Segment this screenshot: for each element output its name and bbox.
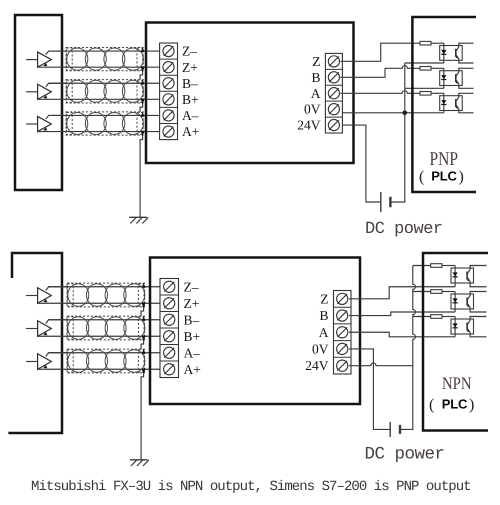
resistor R2 (top) [420, 67, 431, 71]
shielded twisted-pair cable A (top) [66, 112, 145, 136]
wire pair A (top) [38, 115, 163, 131]
svg-text:24V: 24V [305, 358, 329, 373]
resistor R1 (bottom) [431, 264, 442, 268]
svg-text:(: ( [429, 397, 434, 414]
wire pair B (bottom) [38, 320, 163, 337]
svg-text:A–: A– [182, 108, 199, 123]
label DC power (top) [365, 220, 443, 239]
svg-text:PLC: PLC [431, 169, 457, 184]
svg-text:DC power: DC power [365, 444, 445, 464]
wire R3 to LED (top) [431, 92, 444, 94]
optocoupler U2 (top) [440, 68, 474, 88]
label PLC (bottom) [429, 397, 474, 414]
terminal block encoder side (bottom) [160, 279, 179, 378]
resistor R1 (top) [420, 41, 431, 45]
svg-text:A: A [319, 325, 329, 340]
svg-text:A+: A+ [182, 124, 199, 139]
wire 24V to battery (top) [342, 125, 380, 202]
wire Z to opto (bottom) [349, 287, 455, 299]
optocoupler U3 (bottom) [451, 317, 487, 337]
ground shield earth (bottom) [130, 460, 149, 466]
drive unit box (bottom diagram) [150, 258, 360, 405]
shield drain link Z (bottom) [141, 307, 144, 316]
caption [31, 479, 471, 495]
shielded twisted-pair cable B (bottom) [67, 316, 146, 341]
svg-text:B: B [311, 70, 320, 85]
terminal block PLC side (bottom) [334, 291, 352, 375]
svg-text:B+: B+ [182, 92, 199, 107]
wire rail to R2 (bottom) [413, 291, 431, 293]
svg-text:A: A [311, 86, 321, 101]
label DC power (bottom) [365, 444, 445, 464]
ground shield earth (top) [129, 217, 148, 223]
svg-text:B+: B+ [184, 329, 201, 344]
shielded twisted-pair cable B (top) [66, 80, 145, 104]
shield drain link B (top) [140, 103, 143, 112]
wire cathode rail row1 (top) [405, 62, 444, 64]
wire R1 to LED (top) [431, 42, 444, 44]
svg-text:Z–: Z– [182, 44, 197, 59]
svg-text:Z: Z [320, 292, 328, 307]
wire R1 to LED (bottom) [442, 265, 455, 267]
wire A to PLC (top) [340, 91, 420, 94]
svg-text:Z: Z [312, 54, 320, 69]
wire rail to R1 (bottom) [413, 265, 431, 267]
wire A to opto (bottom) [349, 332, 455, 337]
resistor R3 (bottom) [431, 315, 442, 319]
junction 0V (top) [403, 111, 408, 116]
label NPN [442, 373, 472, 393]
svg-text:): ) [459, 169, 464, 186]
terminal labels PLC side (top) [297, 54, 321, 133]
drive unit box (top diagram) [146, 23, 354, 164]
wire pair Z (top) [38, 51, 163, 67]
optocoupler U2 (bottom) [451, 292, 487, 313]
resistor R3 (top) [420, 92, 431, 96]
svg-text:24V: 24V [297, 118, 321, 133]
PLC box (bottom diagram) [423, 253, 488, 431]
svg-text:B–: B– [182, 76, 198, 91]
optocoupler U1 (bottom) [451, 266, 487, 287]
wire 24V rail vertical (bottom) [401, 266, 415, 430]
shield drain link Z (top) [140, 71, 143, 80]
wire cathode rail row2 (top) [405, 87, 444, 89]
svg-text:Mitsubishi FX–3U is NPN output: Mitsubishi FX–3U is NPN output, Simens S… [31, 479, 471, 495]
wire cathode rail vertical (top) [404, 63, 406, 113]
svg-text:Z+: Z+ [182, 60, 198, 75]
wire rail to R3 (bottom) [413, 316, 431, 318]
terminal labels PLC side (bottom) [305, 292, 329, 374]
svg-text:PLC: PLC [442, 397, 468, 412]
svg-text:): ) [469, 397, 474, 414]
wire R2 to LED (bottom) [442, 291, 455, 293]
wire 24V to rail (bottom) [349, 363, 413, 366]
wire 0V rail (top) [342, 112, 444, 114]
shielded twisted-pair cable Z (top) [66, 47, 145, 71]
shield drain to ground (bottom) [141, 373, 144, 460]
wire battery to 0V (top) [392, 113, 405, 202]
resistor R2 (bottom) [431, 290, 442, 294]
svg-text:Z–: Z– [184, 279, 199, 294]
wire pair A (bottom) [38, 353, 163, 370]
svg-text:(: ( [419, 169, 424, 186]
DC power battery (bottom) [390, 422, 400, 437]
line driver B (bottom) [26, 320, 67, 337]
wire B to opto (bottom) [349, 312, 455, 316]
line driver Z (top) [26, 51, 67, 67]
PLC box (top diagram) [412, 17, 476, 192]
wire Z to PLC (top) [340, 43, 420, 61]
label PLC (top) [419, 169, 464, 186]
svg-text:A–: A– [184, 345, 201, 360]
DC power battery (top) [381, 192, 391, 212]
shield drain link B (bottom) [141, 340, 144, 349]
wire R2 to LED (top) [431, 67, 444, 69]
optocoupler U1 (top) [440, 43, 474, 63]
encoder box (bottom diagram) [8, 253, 62, 433]
wire pair Z (bottom) [38, 287, 163, 304]
svg-text:Z+: Z+ [184, 296, 200, 311]
svg-text:B–: B– [184, 312, 200, 327]
wire pair B (top) [38, 83, 163, 99]
encoder box (top diagram) [15, 15, 62, 190]
svg-text:NPN: NPN [442, 373, 472, 393]
line driver B (top) [26, 83, 67, 99]
wire B to PLC (top) [340, 66, 420, 78]
shield drain to ground (top) [140, 135, 143, 217]
terminal labels encoder side (bottom) [184, 279, 201, 377]
optocoupler U3 (top) [440, 93, 474, 113]
terminal block PLC side (top) [325, 53, 342, 133]
wire R3 to LED (bottom) [442, 316, 455, 318]
line driver Z (bottom) [26, 287, 67, 304]
line driver A (bottom) [26, 353, 67, 370]
line driver A (top) [26, 115, 67, 131]
svg-text:0V: 0V [304, 102, 321, 117]
svg-text:0V: 0V [312, 342, 329, 357]
terminal labels encoder side (top) [182, 44, 199, 140]
label PNP [430, 149, 459, 170]
svg-text:DC power: DC power [365, 220, 443, 239]
svg-text:B: B [319, 308, 328, 323]
shielded twisted-pair cable A (bottom) [67, 349, 146, 374]
wire 0V to battery (bottom) [349, 349, 390, 429]
svg-text:A+: A+ [184, 362, 201, 377]
shielded twisted-pair cable Z (bottom) [67, 283, 146, 308]
terminal block encoder side (top) [160, 43, 178, 140]
svg-text:PNP: PNP [430, 149, 459, 170]
